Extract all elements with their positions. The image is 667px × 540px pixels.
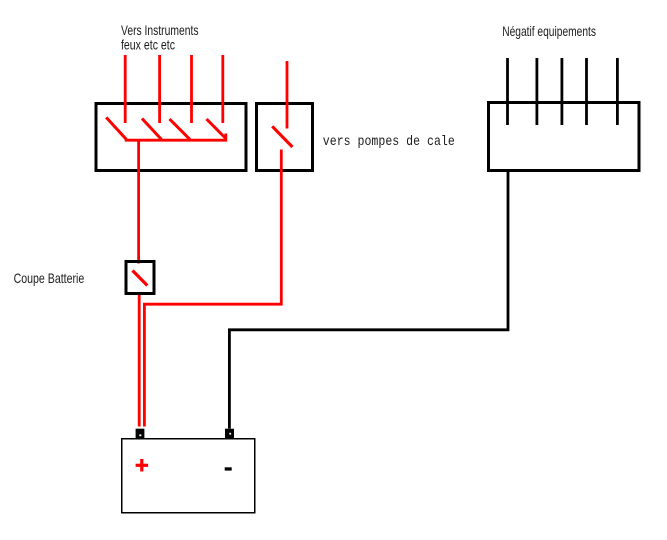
svg-text:vers pompes de cale: vers pompes de cale <box>323 134 455 150</box>
wire: bilge pump feed <box>286 61 289 129</box>
switch/fuse panel box (vers instruments) <box>96 104 246 171</box>
svg-text:Coupe Batterie: Coupe Batterie <box>14 270 85 286</box>
wire: instrument feed 1 <box>124 55 127 123</box>
battery positive terminal <box>136 429 145 439</box>
wire: negative pin 5 <box>616 58 619 125</box>
white mark on negative terminal <box>229 433 231 435</box>
svg-text:feux etc etc: feux etc etc <box>121 37 175 53</box>
switch blade S3 <box>170 119 191 140</box>
svg-text:Vers Instruments: Vers Instruments <box>121 22 199 38</box>
wire: instrument feed 3 <box>190 55 193 123</box>
red bus bar of panel <box>125 134 226 141</box>
battery switch box (coupe batterie) <box>126 262 154 294</box>
svg-text:Négatif equipements: Négatif equipements <box>502 23 596 39</box>
wire: bilge switch to battery positive <box>144 150 281 427</box>
minus symbol on battery <box>225 467 232 470</box>
wire: negative pin 3 <box>561 58 564 125</box>
white mark on positive terminal <box>139 434 141 436</box>
bilge pump switch box <box>257 104 313 171</box>
wire: negative pin 2 <box>536 58 539 125</box>
wire: instrument feed 4 <box>221 55 224 123</box>
battery negative terminal <box>225 429 234 439</box>
negative distribution box <box>489 103 640 171</box>
switch blade S5 (bilge) <box>272 126 292 147</box>
wire: coupe batterie to battery positive <box>138 295 141 427</box>
wire: negative pin 1 <box>506 58 509 125</box>
wire: negative pin 4 <box>585 58 588 125</box>
wire: negative box to battery minus <box>229 170 508 429</box>
switch blade S6 (coupe batterie) <box>133 271 148 286</box>
switch blade S2 <box>142 119 162 140</box>
switch blade S1 <box>106 117 126 139</box>
wire: instrument feed 2 <box>158 55 161 123</box>
switch blade S4 <box>207 119 226 139</box>
battery body <box>122 439 255 513</box>
wire: bus to coupe batterie <box>137 140 140 264</box>
plus symbol on battery <box>136 459 149 472</box>
